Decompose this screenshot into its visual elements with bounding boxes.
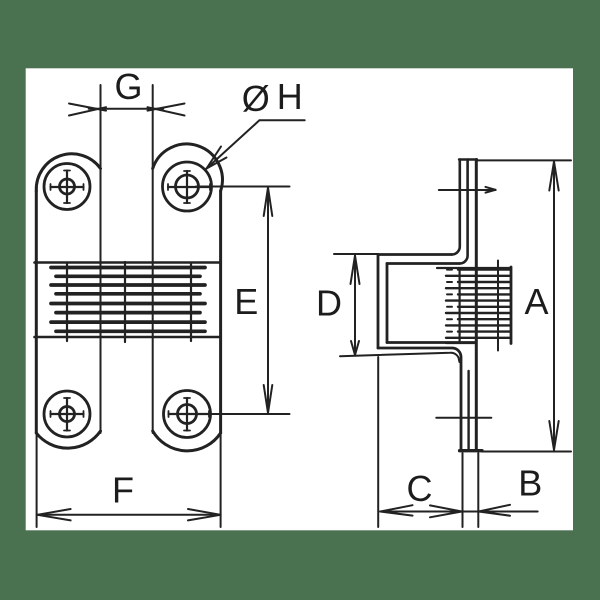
screw centre tick lower <box>436 417 491 419</box>
block left dotted column <box>447 270 452 332</box>
G left arrow (outside, pointing right) <box>69 104 106 116</box>
A top arrow <box>549 162 558 191</box>
top-right lobe arc <box>153 144 223 191</box>
E bottom extension line <box>196 413 290 415</box>
top strip middle line <box>460 160 468 264</box>
channel web inner <box>386 264 389 343</box>
svg-text:E: E <box>234 281 258 322</box>
svg-text:B: B <box>518 463 542 504</box>
slot right line <box>152 85 154 433</box>
svg-text:D: D <box>316 283 342 324</box>
E top arrow <box>264 188 273 217</box>
screw centre tick upper arrowhead <box>486 187 496 193</box>
channel bottom arm outer <box>378 348 461 450</box>
bottom-left lobe arc <box>36 431 100 448</box>
A bottom extension line <box>482 451 571 453</box>
block right edge <box>510 267 513 344</box>
svg-text:A: A <box>524 281 548 322</box>
plate right edge <box>219 191 222 433</box>
knuckle lamination bars <box>51 268 205 332</box>
D top arrow <box>351 256 360 285</box>
svg-text:C: C <box>407 468 433 509</box>
knuckle section bottom line <box>35 336 220 339</box>
channel top arm outer <box>378 253 452 256</box>
channel web outer <box>377 255 380 349</box>
screw bottom-left <box>44 391 90 437</box>
knuckle section top line <box>35 261 220 264</box>
H leader arrowhead <box>207 147 227 169</box>
svg-text:G: G <box>114 66 142 107</box>
slot left line <box>100 85 102 433</box>
A bottom arrow <box>549 421 558 450</box>
svg-text:F: F <box>112 470 134 511</box>
F right extension line <box>220 433 222 527</box>
screw bottom-right <box>164 391 211 438</box>
H leader line <box>207 120 305 168</box>
D bottom extension line <box>340 353 460 362</box>
vertical through block (left face) <box>459 268 461 343</box>
spring block (hatched) <box>446 270 511 338</box>
A top extension line <box>477 159 571 161</box>
block bottom edge <box>446 342 476 344</box>
mid line below elbow <box>467 371 469 450</box>
knuckle vertical hatch lines <box>67 262 191 342</box>
channel bottom arm inner <box>387 341 475 344</box>
top-left lobe arc <box>36 154 100 191</box>
foot cap at bottom of strip <box>460 449 482 452</box>
D top extension line <box>334 253 378 255</box>
B left-pointing arrowhead <box>479 505 510 516</box>
C right arrowhead <box>430 505 462 517</box>
screw top-left <box>44 164 90 210</box>
plate left edge <box>35 191 38 433</box>
channel top arm inner <box>387 262 460 265</box>
F left arrowhead <box>37 509 70 520</box>
F right arrowhead <box>188 509 221 520</box>
C left arrowhead <box>381 505 413 515</box>
strip top cap <box>459 158 477 160</box>
svg-text:Ø: Ø <box>242 78 270 119</box>
top strip left line <box>452 160 460 255</box>
G dimension line <box>89 108 164 110</box>
D bottom arrow <box>351 341 359 355</box>
A dimension line <box>553 161 555 451</box>
top strip right line (full height) <box>475 160 478 451</box>
screw centre tick upper <box>439 189 496 191</box>
extension below foot left <box>462 453 464 527</box>
G right arrow (outside, pointing left) <box>148 104 185 116</box>
C/B dimension line <box>380 511 538 513</box>
block centre line <box>497 261 499 351</box>
E dimension line <box>267 187 269 414</box>
E bottom arrow <box>264 385 273 413</box>
F left extension line <box>36 433 38 527</box>
block top edge <box>437 267 511 269</box>
extension below foot right <box>477 453 479 527</box>
F dimension line <box>37 514 221 516</box>
white drawing sheet <box>26 68 573 530</box>
E top extension line <box>196 186 290 188</box>
screw top-right <box>163 162 212 211</box>
bottom-right lobe arc <box>153 431 221 451</box>
C left extension line (web extended) <box>377 357 379 527</box>
D dimension line <box>354 255 356 356</box>
svg-text:H: H <box>277 76 303 117</box>
